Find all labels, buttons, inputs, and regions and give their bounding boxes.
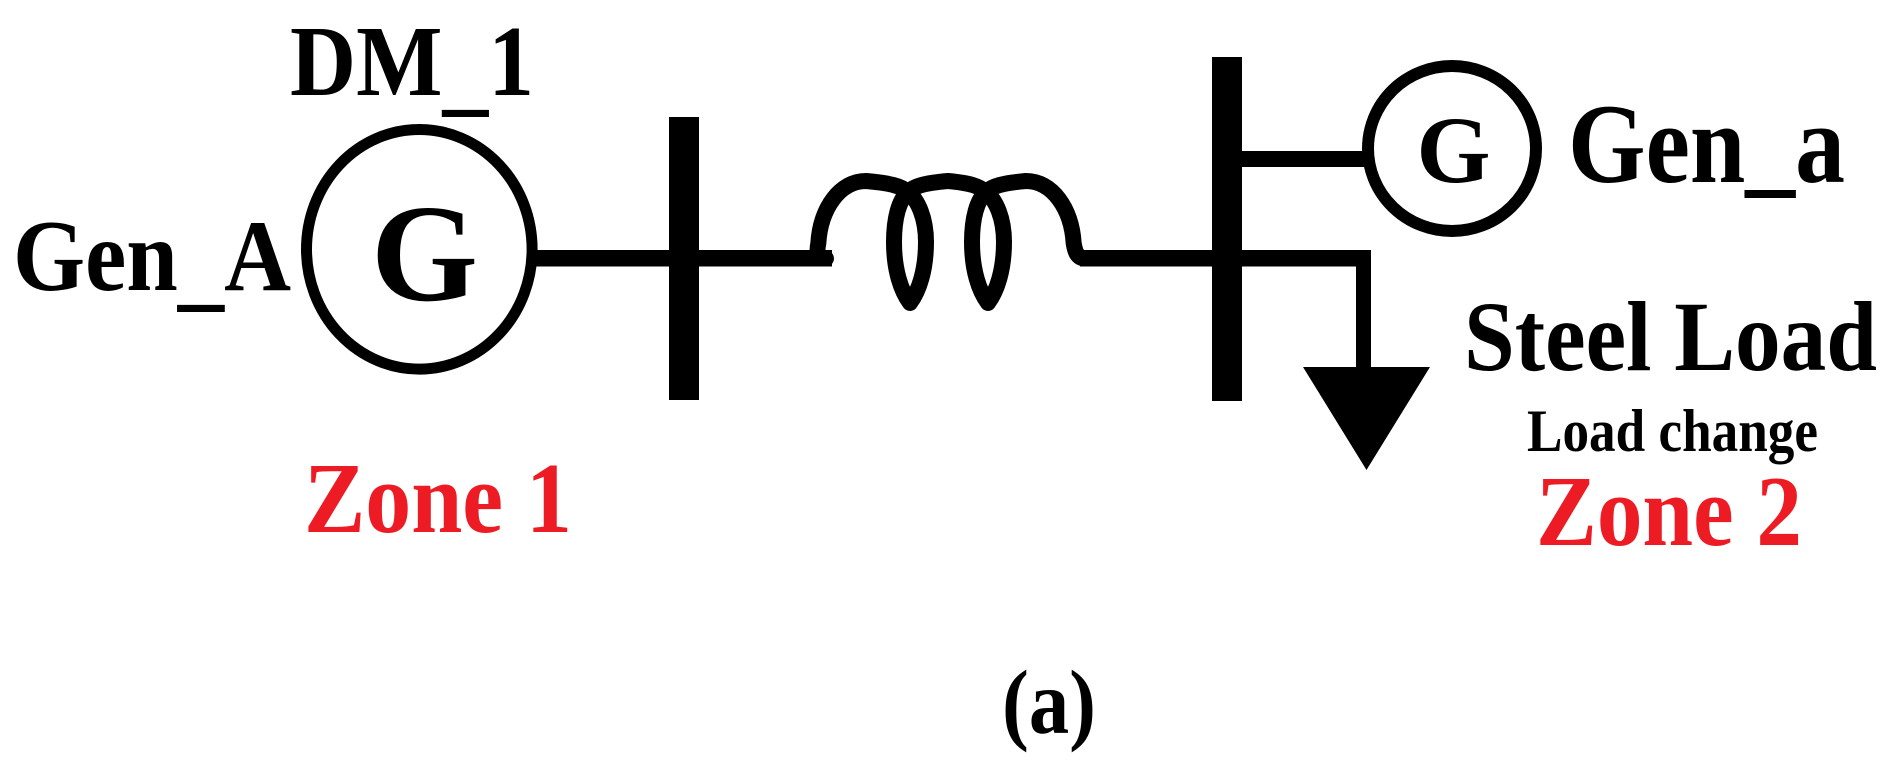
svg-text:G: G xyxy=(1417,97,1491,203)
svg-text:(a): (a) xyxy=(1002,652,1096,753)
svg-text:G: G xyxy=(371,177,478,331)
svg-text:DM_1: DM_1 xyxy=(290,5,534,126)
svg-text:Zone 2: Zone 2 xyxy=(1536,455,1802,567)
svg-text:Steel Load: Steel Load xyxy=(1464,281,1877,392)
svg-text:Gen_A: Gen_A xyxy=(13,199,291,320)
svg-text:Gen_a: Gen_a xyxy=(1568,81,1845,206)
svg-text:Zone 1: Zone 1 xyxy=(304,442,572,554)
